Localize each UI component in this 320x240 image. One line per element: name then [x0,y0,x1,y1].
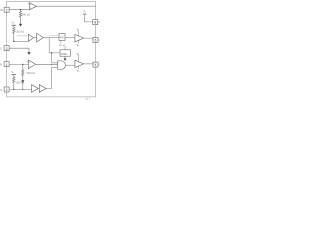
buffer B2 [75,60,84,67]
B1 top tap [78,31,80,36]
A0 input marks [29,4,32,8]
svg-text:S: S [0,47,2,51]
resistor R4 200k [13,75,15,90]
U1 tap below [60,41,62,44]
node J2 [13,41,14,42]
node J3 [22,64,23,65]
svg-text:200 kΩ: 200 kΩ [16,82,24,85]
svg-text:V₀: V₀ [59,43,62,47]
svg-text:G: G [0,88,2,92]
svg-text:200 kΩ: 200 kΩ [16,30,24,33]
node J4 [13,89,14,90]
wire A3 out to box U1 [43,37,59,39]
B2 bottom tap [78,66,80,69]
svg-text:V₁: V₁ [83,10,86,13]
pin box P1 [4,7,9,12]
pin box P4 [4,87,9,92]
node J7 [22,89,23,90]
gate input stub 1 [52,62,58,64]
wire J5 down [51,53,53,63]
A0 upper input stub [28,3,30,5]
box OSC [60,50,71,56]
wire pin3 to A4 [9,63,28,65]
svg-text:4: 4 [6,88,8,92]
bias rail bar [12,24,17,26]
svg-text:V₅: V₅ [11,71,14,74]
wire A0 output [36,5,95,7]
pin box A [93,20,98,25]
gate G1 [58,61,66,70]
arrow to GND A1 [19,23,22,26]
op-amp A2 [28,34,33,41]
rail bar top right [83,13,86,15]
svg-text:P: P [98,21,100,24]
A4 upper input stub [27,61,29,63]
svg-text:V₁: V₁ [77,27,80,31]
wire rail to pin A [85,14,93,22]
pin box B [93,38,98,43]
op-amp A6 [39,85,46,93]
svg-text:O: O [99,39,100,42]
B2 top tap [78,55,80,61]
border frame [7,2,96,97]
arrow to GND A3 [22,79,25,82]
box U1 [59,34,65,41]
svg-text:V₅: V₅ [12,22,15,25]
svg-text:PG: PG [60,36,64,40]
op-amp A0 top [29,3,36,10]
svg-text:600 kΩ: 600 kΩ [27,72,35,75]
wire B2 to pin C [84,63,93,66]
A4 input marks [29,62,30,66]
pin box P3 [4,62,9,67]
pin box P2 [4,46,9,51]
B1 bottom tap [78,40,80,43]
svg-text:V₁: V₁ [77,52,80,56]
svg-text:V₂: V₂ [77,68,80,72]
wire arrow to pin4 wire [22,83,24,90]
node J5 [51,52,52,53]
svg-text:3: 3 [6,47,8,51]
OSC arrow to gate [64,56,66,60]
svg-text:IN: IN [0,8,3,12]
svg-text:2: 2 [6,8,8,12]
wire B1 to pin B [84,38,93,40]
node J1 [20,9,21,10]
svg-text:1: 1 [6,63,8,67]
OSC top tap [64,47,66,50]
op-amp A4 [28,60,35,69]
node J6 [51,64,52,65]
wire U1 to buffer B1 [65,36,75,38]
wire A5 to A6 [32,88,40,91]
resistor R1 600k [19,10,21,24]
wire gate out to buffer B2 [66,64,75,66]
buffer B1 [75,34,84,42]
svg-text:O: O [99,64,100,67]
wire A6 out up to gate [46,67,51,88]
svg-text:8: 8 [94,21,96,25]
wire branch down to OSC [49,38,60,53]
arrow down from pin2 wire [28,48,31,54]
svg-text:B: B [0,63,2,67]
op-amp A5 [32,85,39,93]
svg-text:OSC: OSC [61,52,68,56]
svg-text:V₂: V₂ [77,43,80,47]
gate input stub 3 [52,66,58,68]
svg-text:6: 6 [95,39,97,43]
wire stub upper input A2 [17,35,29,37]
pin box C [93,62,98,67]
wire A2 out to A3 [34,37,37,39]
op-amp A3 [37,33,44,42]
wire pin1 to amp A1 [9,9,29,11]
wire J2 to A2 [14,40,29,42]
faint pair line [49,35,59,37]
svg-text:600 kΩ: 600 kΩ [22,13,30,16]
resistor R2 200k [13,25,15,41]
bias rail bar bottom [12,74,17,76]
wire pin2 right [9,47,29,49]
resistor R3 600k [22,64,24,79]
wire pin4 to A5 [9,88,31,90]
wire A4 out to gate [36,63,58,65]
svg-text:fig 1: fig 1 [86,97,91,100]
svg-text:4: 4 [95,63,97,67]
